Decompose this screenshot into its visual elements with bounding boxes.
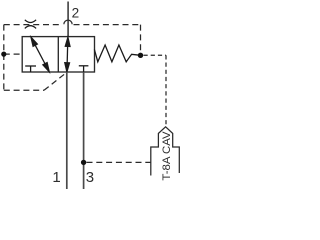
svg-text:T-8A CAV: T-8A CAV xyxy=(161,131,173,181)
junction dot spring pilot xyxy=(138,53,143,58)
valve V1 body xyxy=(22,37,94,72)
pilot line cavity vertical dashed xyxy=(165,55,167,124)
pilot line diagonal to port 1 dashed xyxy=(44,72,67,90)
pilot line left vertical dashed xyxy=(3,25,5,91)
valve V1 right position vertical flow arrow xyxy=(65,37,70,72)
orifice restriction symbol xyxy=(25,20,36,29)
valve V1 left position diagonal flow arrow xyxy=(31,37,49,71)
valve V1 left position blocked port T xyxy=(25,66,36,72)
wire port 2 line xyxy=(67,2,69,37)
pilot line port 3 to cavity dashed xyxy=(87,161,151,163)
svg-text:2: 2 xyxy=(72,6,80,21)
wire port 1 line xyxy=(66,72,68,189)
pilot line right vertical dashed from corner to spring dot xyxy=(140,25,142,53)
valve V1 right position blocked port T xyxy=(79,66,89,72)
spring xyxy=(94,45,140,62)
pilot line top horizontal dashed right part xyxy=(74,24,141,26)
wire port 3 line xyxy=(83,72,85,189)
pilot line top horizontal dashed xyxy=(4,24,61,26)
wire crossing hop xyxy=(64,20,72,24)
svg-text:1: 1 xyxy=(52,169,60,186)
cavity T-8A outline xyxy=(151,127,180,176)
pilot line bottom horizontal dashed xyxy=(4,89,44,91)
pilot line from spring dot to cavity dashed xyxy=(144,54,167,56)
svg-text:3: 3 xyxy=(86,169,94,186)
pilot branch to valve left side dashed xyxy=(4,53,22,55)
junction dot left pilot xyxy=(1,52,6,57)
junction dot port 3 xyxy=(81,160,86,165)
